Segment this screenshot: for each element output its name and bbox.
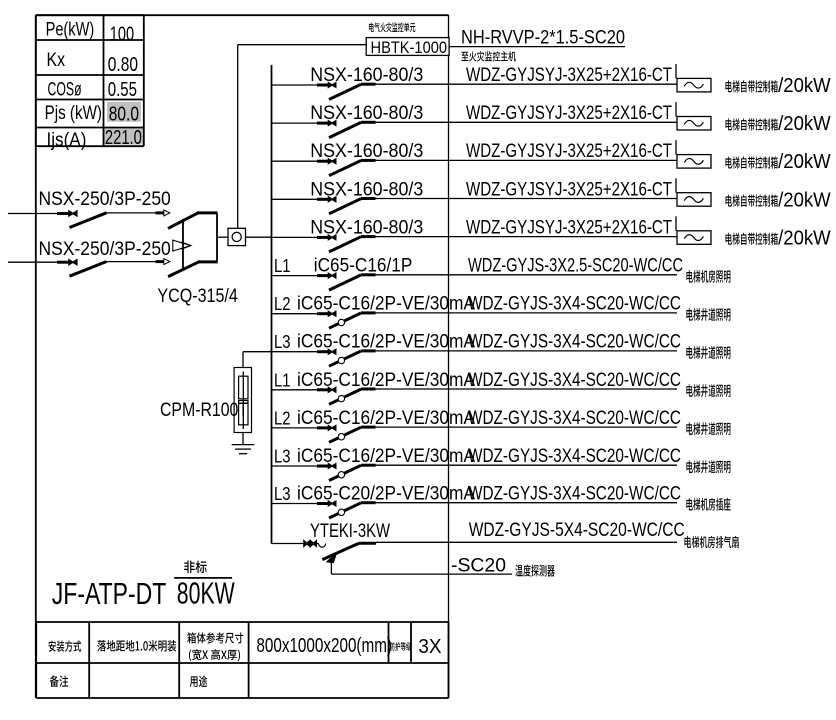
svg-text:221.0: 221.0 bbox=[105, 127, 142, 149]
svg-text:/20kW: /20kW bbox=[778, 113, 831, 135]
breaker QF211 iC65-C16/2P-VE/30mA branch 11 phase L3 bbox=[272, 465, 318, 467]
svg-text:L2: L2 bbox=[274, 408, 291, 428]
svg-text:80.0: 80.0 bbox=[109, 104, 139, 126]
svg-text:WDZ-GYJS-3X4-SC20-WC/CC: WDZ-GYJS-3X4-SC20-WC/CC bbox=[468, 446, 681, 467]
wire - drawing frame left border bbox=[35, 15, 37, 698]
wire cable tail tick bbox=[675, 216, 677, 230]
svg-text:/20kW: /20kW bbox=[778, 151, 831, 173]
wire meter riser up to fire-monitor feed bbox=[237, 45, 239, 229]
breaker QF14 NSX-160-80/3 branch 4 bbox=[272, 198, 318, 200]
svg-text:WDZ-GYJS-3X4-SC20-WC/CC: WDZ-GYJS-3X4-SC20-WC/CC bbox=[468, 332, 681, 353]
load box elevator drive 3 (AC load) bbox=[677, 155, 711, 169]
svg-text:YCQ-315/4: YCQ-315/4 bbox=[157, 286, 238, 307]
svg-text:WDZ-GYJSYJ-3X25+2X16-CT: WDZ-GYJSYJ-3X25+2X16-CT bbox=[466, 65, 672, 86]
value label 箱体参考尺寸(宽X高X厚) bbox=[187, 632, 243, 643]
svg-text:NSX-250/3P-250: NSX-250/3P-250 bbox=[39, 239, 171, 260]
svg-text:NH-RVVP-2*1.5-SC20: NH-RVVP-2*1.5-SC20 bbox=[461, 28, 625, 49]
node main bus bar bbox=[271, 65, 273, 544]
value label 至火灾监控主机 bbox=[461, 51, 515, 61]
value label 电梯井道照明 bbox=[686, 422, 730, 435]
value label 落地距地1.0米明装 bbox=[97, 640, 176, 652]
svg-text:-SC20: -SC20 bbox=[451, 556, 506, 577]
svg-text:/20kW: /20kW bbox=[778, 189, 831, 211]
svg-text:800x1000x200(mm): 800x1000x200(mm) bbox=[256, 635, 392, 657]
svg-text:JF-ATP-DT: JF-ATP-DT bbox=[52, 576, 167, 611]
value label 电梯机房照明 bbox=[686, 270, 730, 283]
wire from HBTK to fire alarm host with cable label NH-RVVP-2*1.5-SC20 bbox=[449, 46, 625, 48]
svg-text:Ijs(A): Ijs(A) bbox=[47, 130, 87, 151]
wire branch output bbox=[376, 83, 678, 85]
value label 电梯井道照明 bbox=[686, 384, 730, 397]
wire branch output bbox=[376, 198, 678, 200]
breaker QF2 incoming NSX-250/3P-250 bbox=[8, 261, 57, 263]
svg-text:0.80: 0.80 bbox=[108, 54, 138, 76]
breaker QF33 YTEKI-3KW exhaust fan starter bbox=[272, 543, 304, 545]
value label 防护等级 bbox=[390, 642, 411, 651]
svg-text:WDZ-GYJS-3X2.5-SC20-WC/CC: WDZ-GYJS-3X2.5-SC20-WC/CC bbox=[468, 256, 683, 277]
svg-text:NSX-160-80/3: NSX-160-80/3 bbox=[310, 217, 423, 238]
value label 电梯自带控制箱/20kW branch 1 bbox=[726, 80, 778, 92]
ground symbol bbox=[242, 433, 244, 445]
wire branch output bbox=[376, 502, 678, 504]
breaker QF12 NSX-160-80/3 branch 2 bbox=[272, 122, 318, 124]
breaker QF26 iC65-C16/1P branch 6 phase L1 bbox=[272, 275, 318, 277]
value label 电梯自带控制箱/20kW branch 4 bbox=[726, 194, 778, 206]
svg-text:3X: 3X bbox=[418, 636, 441, 658]
svg-text:L3: L3 bbox=[274, 332, 291, 352]
wire branch output bbox=[376, 236, 678, 238]
svg-text:/20kW: /20kW bbox=[778, 75, 831, 97]
wire arrow into ATS input 2 bbox=[164, 259, 170, 265]
value label 电梯自带控制箱/20kW branch 3 bbox=[726, 156, 778, 168]
fire monitoring unit HBTK-1000 bbox=[366, 38, 449, 56]
svg-text:NSX-160-80/3: NSX-160-80/3 bbox=[310, 179, 423, 200]
breaker QF15 NSX-160-80/3 branch 5 bbox=[272, 236, 318, 238]
breaker QF210 iC65-C16/2P-VE/30mA branch 10 phase L2 bbox=[272, 427, 318, 429]
svg-text:HBTK-1000: HBTK-1000 bbox=[371, 38, 448, 57]
svg-text:0.55: 0.55 bbox=[108, 79, 137, 101]
wire branch output bbox=[376, 121, 678, 123]
svg-text:NSX-250/3P-250: NSX-250/3P-250 bbox=[39, 189, 171, 210]
svg-text:WDZ-GYJS-3X4-SC20-WC/CC: WDZ-GYJS-3X4-SC20-WC/CC bbox=[468, 484, 681, 505]
svg-text:WDZ-GYJS-3X4-SC20-WC/CC: WDZ-GYJS-3X4-SC20-WC/CC bbox=[468, 370, 681, 391]
wire - top feeder line from metering tap to HBTK column bbox=[36, 14, 449, 16]
wire branch output bbox=[376, 350, 678, 352]
wire cable tail tick bbox=[675, 102, 677, 116]
svg-text:iC65-C16/2P-VE/30mA: iC65-C16/2P-VE/30mA bbox=[297, 408, 475, 429]
wire branch output bbox=[376, 312, 678, 314]
svg-text:WDZ-GYJS-5X4-SC20-WC/CC: WDZ-GYJS-5X4-SC20-WC/CC bbox=[469, 520, 685, 541]
svg-text:WDZ-GYJS-3X4-SC20-WC/CC: WDZ-GYJS-3X4-SC20-WC/CC bbox=[468, 294, 681, 315]
calculation parameter table bbox=[107, 102, 141, 122]
value label 电梯井道照明 bbox=[686, 460, 730, 473]
svg-text:iC65-C16/2P-VE/30mA: iC65-C16/2P-VE/30mA bbox=[297, 446, 475, 467]
wire arrow into ATS input 1 bbox=[164, 210, 170, 216]
wire meter output to main bus bbox=[246, 236, 272, 238]
value label 备注 bbox=[50, 675, 69, 687]
breaker QF29 iC65-C16/2P-VE/30mA branch 9 phase L1 bbox=[272, 389, 318, 391]
svg-text:iC65-C16/2P-VE/30mA: iC65-C16/2P-VE/30mA bbox=[297, 332, 475, 353]
svg-text:100: 100 bbox=[110, 24, 134, 46]
wire branch output bbox=[376, 388, 678, 390]
wire ATS output to meter bbox=[217, 236, 228, 238]
breaker QF1 incoming NSX-250/3P-250 bbox=[8, 213, 57, 215]
value label 安装方式 bbox=[49, 640, 82, 652]
wire cable tail tick bbox=[675, 178, 677, 192]
wire temperature sensor tap with arrow into starter bbox=[326, 553, 337, 563]
value label 电梯机房排气扇 bbox=[684, 536, 738, 548]
wire branch output bbox=[376, 159, 678, 161]
svg-text:WDZ-GYJS-3X4-SC20-WC/CC: WDZ-GYJS-3X4-SC20-WC/CC bbox=[468, 408, 681, 429]
breaker QF13 NSX-160-80/3 branch 3 bbox=[272, 160, 318, 162]
value label 电气火灾监控单元 bbox=[369, 22, 415, 32]
svg-text:/20kW: /20kW bbox=[778, 227, 831, 249]
value label 电梯自带控制箱/20kW branch 2 bbox=[726, 118, 778, 130]
value label 电梯井道照明 bbox=[686, 308, 730, 321]
svg-text:L3: L3 bbox=[274, 484, 291, 504]
breaker QF212 iC65-C20/2P-VE/30mA branch 12 phase L3 bbox=[272, 503, 318, 505]
meter M1 (current transformer / metering box) bbox=[228, 228, 246, 245]
svg-text:Pjs (kW): Pjs (kW) bbox=[45, 103, 102, 124]
svg-text:WDZ-GYJSYJ-3X25+2X16-CT: WDZ-GYJSYJ-3X25+2X16-CT bbox=[466, 217, 672, 238]
svg-text:YTEKI-3KW: YTEKI-3KW bbox=[310, 521, 390, 542]
wire branch output bbox=[376, 274, 678, 276]
value label 电梯井道照明 bbox=[686, 346, 730, 359]
svg-text:NSX-160-80/3: NSX-160-80/3 bbox=[310, 103, 423, 124]
ATS common output pointer bbox=[173, 240, 191, 251]
value label 电梯机房插座 bbox=[686, 498, 730, 511]
svg-text:NSX-160-80/3: NSX-160-80/3 bbox=[310, 141, 423, 162]
load box elevator drive 4 (AC load) bbox=[677, 193, 711, 207]
value label 电梯自带控制箱/20kW branch 5 bbox=[726, 233, 778, 245]
svg-text:L2: L2 bbox=[274, 294, 291, 314]
wire branch output bbox=[376, 464, 678, 466]
wire metering feed to HBTK unit bbox=[238, 44, 367, 46]
value label 温度探测器 bbox=[515, 564, 555, 576]
surge protector SPD CPM-R100T bbox=[243, 351, 272, 353]
wire cable tail tick bbox=[675, 140, 677, 154]
load box elevator drive 2 (AC load) bbox=[677, 117, 711, 131]
svg-text:CPM-R100T: CPM-R100T bbox=[160, 400, 248, 421]
svg-text:80KW: 80KW bbox=[177, 576, 235, 611]
svg-text:L1: L1 bbox=[274, 370, 291, 390]
svg-text:iC65-C20/2P-VE/30mA: iC65-C20/2P-VE/30mA bbox=[297, 484, 475, 505]
svg-text:iC65-C16/2P-VE/30mA: iC65-C16/2P-VE/30mA bbox=[297, 294, 475, 315]
svg-text:Kx: Kx bbox=[47, 50, 66, 71]
svg-text:L1: L1 bbox=[274, 256, 291, 276]
breaker QF28 iC65-C16/2P-VE/30mA branch 8 phase L3 bbox=[272, 351, 318, 353]
ATS blade input 2 bbox=[168, 261, 200, 276]
load box elevator drive 5 (AC load) bbox=[677, 231, 711, 245]
svg-text:WDZ-GYJSYJ-3X25+2X16-CT: WDZ-GYJSYJ-3X25+2X16-CT bbox=[466, 179, 672, 200]
wire branch output bbox=[376, 541, 677, 543]
svg-text:iC65-C16/2P-VE/30mA: iC65-C16/2P-VE/30mA bbox=[297, 370, 475, 391]
title block table bbox=[36, 621, 448, 623]
svg-text:WDZ-GYJSYJ-3X25+2X16-CT: WDZ-GYJSYJ-3X25+2X16-CT bbox=[466, 103, 672, 124]
breaker QF11 NSX-160-80/3 branch 1 bbox=[272, 84, 318, 86]
svg-text:WDZ-GYJSYJ-3X25+2X16-CT: WDZ-GYJSYJ-3X25+2X16-CT bbox=[466, 141, 672, 162]
svg-text:L3: L3 bbox=[274, 447, 291, 467]
load box elevator drive 1 (AC load) bbox=[677, 78, 711, 92]
wire branch output bbox=[376, 426, 678, 428]
wire - long vertical line below HBTK box down to title block bbox=[448, 15, 450, 698]
breaker QF27 iC65-C16/2P-VE/30mA branch 7 phase L2 bbox=[272, 313, 318, 315]
svg-text:COSø: COSø bbox=[48, 80, 82, 101]
svg-text:NSX-160-80/3: NSX-160-80/3 bbox=[310, 65, 423, 86]
svg-text:iC65-C16/1P: iC65-C16/1P bbox=[314, 256, 413, 277]
wire cable tail tick bbox=[675, 64, 677, 78]
value label 用途 bbox=[190, 675, 208, 687]
svg-text:Pe(kW): Pe(kW) bbox=[46, 20, 95, 41]
ATS blade input 1 bbox=[168, 212, 199, 228]
